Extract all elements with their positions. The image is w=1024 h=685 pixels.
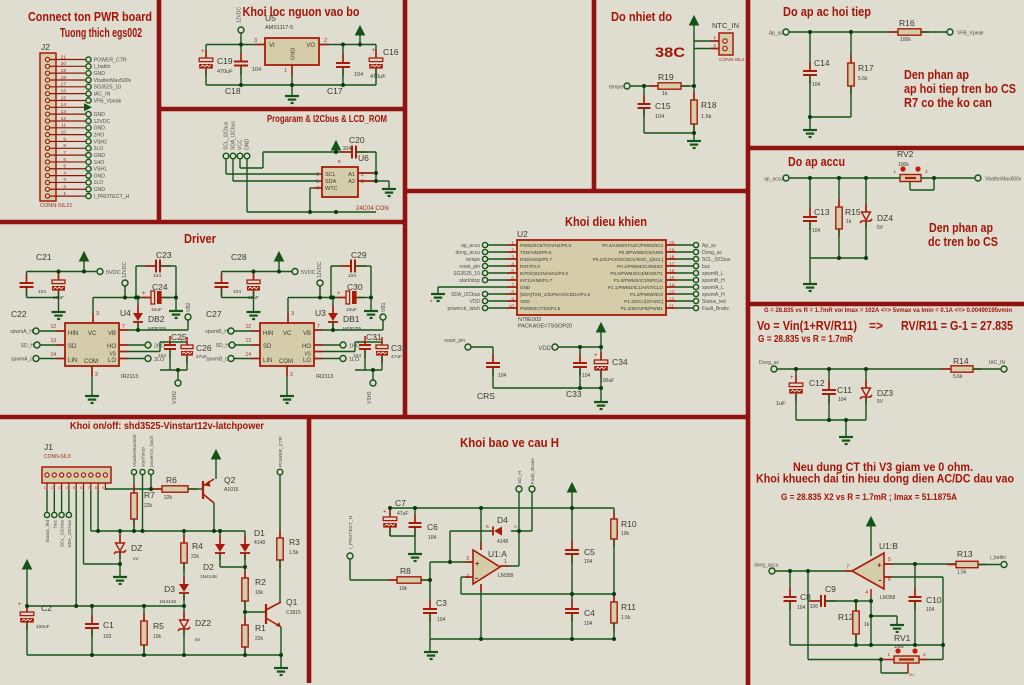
svg-text:U1:A: U1:A	[488, 549, 507, 559]
svg-text:C3: C3	[436, 598, 447, 608]
svg-text:VS: VS	[109, 352, 116, 358]
svg-text:14: 14	[50, 352, 56, 358]
svg-text:104: 104	[233, 289, 241, 295]
svg-text:PWM2/IC6/T0/AIN4/P0.5: PWM2/IC6/T0/AIN4/P0.5	[520, 243, 572, 248]
svg-text:C34: C34	[612, 357, 628, 367]
svg-text:VDD: VDD	[538, 346, 551, 352]
svg-text:12: 12	[245, 324, 251, 330]
svg-text:C33: C33	[566, 389, 582, 399]
svg-text:reset_pin: reset_pin	[459, 264, 480, 270]
svg-text:C18: C18	[225, 86, 241, 96]
svg-text:+: +	[790, 375, 794, 381]
svg-text:Q2: Q2	[224, 475, 236, 485]
svg-text:P1.1/PWM1/IC1/AIN7/CLO: P1.1/PWM1/IC1/AIN7/CLO	[608, 285, 664, 290]
svg-text:COM: COM	[279, 359, 293, 365]
svg-text:C9: C9	[825, 584, 836, 594]
svg-text:TXD/AIN3/P0.6: TXD/AIN3/P0.6	[520, 250, 552, 255]
svg-text:14: 14	[245, 352, 251, 358]
svg-text:38C: 38C	[655, 45, 685, 60]
svg-text:1N4148: 1N4148	[159, 599, 176, 605]
svg-text:3: 3	[361, 179, 364, 185]
svg-text:C13: C13	[814, 207, 830, 217]
svg-text:104: 104	[655, 114, 664, 120]
svg-text:VDD: VDD	[520, 299, 530, 304]
svg-text:C7: C7	[395, 498, 406, 508]
svg-text:C5: C5	[584, 547, 595, 557]
svg-text:104: 104	[812, 228, 821, 234]
svg-text:5: 5	[63, 164, 66, 170]
svg-text:Tuong thich egs002: Tuong thich egs002	[60, 26, 142, 40]
svg-text:12VDC: 12VDC	[122, 261, 128, 278]
svg-text:Den phan ap: Den phan ap	[904, 68, 969, 82]
svg-text:100k: 100k	[894, 644, 905, 649]
svg-text:1HO: 1HO	[94, 160, 105, 166]
svg-text:1k: 1k	[662, 91, 668, 97]
svg-text:DZ2: DZ2	[195, 618, 211, 628]
svg-text:1.5k: 1.5k	[621, 615, 631, 621]
svg-text:powerctr_latch: powerctr_latch	[447, 306, 480, 312]
svg-text:Ap_ac: Ap_ac	[769, 31, 784, 37]
svg-text:VB2: VB2	[186, 302, 192, 312]
svg-text:R18: R18	[701, 100, 717, 110]
svg-text:12: 12	[61, 116, 67, 122]
svg-text:5.6k: 5.6k	[953, 374, 963, 380]
svg-text:SD: SD	[68, 344, 77, 350]
svg-text:4148: 4148	[254, 540, 265, 546]
svg-text:R11: R11	[621, 602, 636, 612]
svg-text:spwmA_L: spwmA_L	[11, 357, 33, 363]
svg-text:SCL_I2Cbus: SCL_I2Cbus	[60, 519, 66, 547]
svg-text:I_battin: I_battin	[94, 64, 111, 70]
svg-text:13: 13	[50, 338, 56, 344]
svg-text:7: 7	[317, 324, 320, 330]
svg-text:G = 28.835 X2 vs R = 1.7mR ; I: G = 28.835 X2 vs R = 1.7mR ; Imax = 51.1…	[781, 492, 957, 503]
svg-text:I_PROTECT_H: I_PROTECT_H	[348, 515, 354, 549]
svg-text:spwmB_H: spwmB_H	[205, 329, 228, 335]
svg-text:VSH1: VSH1	[94, 167, 108, 173]
svg-text:106: 106	[810, 604, 819, 610]
svg-text:G = 28.835 vs R = 1.7mR voi Im: G = 28.835 vs R = 1.7mR voi Imax = 102A …	[764, 307, 1012, 314]
svg-text:47uF: 47uF	[397, 511, 408, 517]
svg-text:3: 3	[466, 556, 469, 562]
svg-text:P0.1/PWM4/IC4/MISO: P0.1/PWM4/IC4/MISO	[617, 264, 663, 269]
svg-text:SG3525_10: SG3525_10	[453, 271, 480, 277]
svg-text:+: +	[594, 353, 598, 359]
svg-text:xV: xV	[133, 556, 139, 562]
svg-text:4148: 4148	[497, 539, 508, 545]
svg-text:Do nhiet do: Do nhiet do	[611, 9, 672, 24]
svg-text:Khoi bao ve cau H: Khoi bao ve cau H	[460, 435, 559, 450]
svg-text:R7: R7	[144, 490, 155, 500]
svg-text:16: 16	[61, 88, 67, 94]
svg-text:104: 104	[343, 146, 352, 152]
svg-text:A: A	[514, 524, 517, 529]
svg-text:4: 4	[63, 170, 66, 176]
svg-text:SDA_I2Cbus: SDA_I2Cbus	[451, 292, 480, 298]
svg-text:7: 7	[63, 150, 66, 156]
svg-text:R16: R16	[899, 18, 915, 28]
svg-text:SD: SD	[263, 344, 272, 350]
svg-text:ap_accu: ap_accu	[764, 177, 783, 183]
svg-text:POWER_CTR: POWER_CTR	[278, 436, 284, 467]
svg-text:104: 104	[353, 353, 361, 359]
svg-text:C24: C24	[152, 282, 168, 292]
svg-text:5VDC: 5VDC	[106, 270, 121, 276]
svg-text:LIN: LIN	[68, 358, 77, 364]
svg-text:P0.2/ICPCK/OCDCK/RXD_1[SCL]: P0.2/ICPCK/OCDCK/RXD_1[SCL]	[593, 257, 663, 262]
svg-text:2: 2	[713, 43, 716, 49]
svg-text:R15: R15	[845, 207, 861, 217]
svg-text:104: 104	[348, 273, 356, 279]
svg-text:2HO: 2HO	[94, 132, 105, 138]
svg-text:100k: 100k	[900, 37, 911, 43]
svg-text:VC: VC	[88, 331, 97, 337]
svg-text:C31: C31	[366, 332, 382, 342]
svg-text:10k: 10k	[621, 531, 630, 537]
svg-text:i_battin: i_battin	[990, 555, 1006, 561]
svg-text:10k: 10k	[255, 590, 264, 596]
svg-text:R6: R6	[166, 475, 177, 485]
svg-text:ap_accu: ap_accu	[461, 243, 480, 249]
svg-text:18: 18	[61, 75, 67, 81]
svg-text:14: 14	[61, 102, 67, 108]
svg-text:C4: C4	[584, 608, 595, 618]
svg-text:GND: GND	[94, 126, 106, 132]
svg-text:U6: U6	[358, 153, 369, 163]
svg-text:Do ap accu: Do ap accu	[788, 154, 845, 169]
svg-text:N79E003: N79E003	[518, 317, 541, 323]
svg-text:IR2113: IR2113	[121, 374, 138, 380]
svg-text:100uF: 100uF	[36, 624, 50, 630]
svg-text:2: 2	[290, 372, 293, 378]
svg-text:7: 7	[122, 324, 125, 330]
svg-text:SCL_I2Cbus: SCL_I2Cbus	[702, 257, 731, 263]
svg-text:Status_led: Status_led	[45, 520, 51, 543]
svg-text:DB1: DB1	[343, 314, 360, 324]
svg-text:+: +	[180, 337, 183, 343]
svg-text:Progaram & I2Cbus & LCD_ROM: Progaram & I2Cbus & LCD_ROM	[267, 113, 387, 125]
svg-text:1N4148: 1N4148	[200, 574, 217, 580]
svg-text:WTC: WTC	[325, 186, 338, 192]
svg-text:reset_pin: reset_pin	[444, 338, 465, 344]
svg-text:R8: R8	[400, 566, 411, 576]
svg-text:104: 104	[437, 617, 446, 623]
svg-text:21: 21	[61, 54, 67, 60]
svg-text:Khoi khuech dai tin hieu dong: Khoi khuech dai tin hieu dong dien AC/DC…	[756, 472, 1014, 486]
svg-text:SG3525_10: SG3525_10	[94, 85, 122, 91]
svg-text:104: 104	[153, 273, 161, 279]
svg-text:VSH2: VSH2	[172, 391, 178, 404]
svg-text:AMS1117-5: AMS1117-5	[265, 25, 293, 31]
svg-text:P1.3/SCL/[STADC]: P1.3/SCL/[STADC]	[624, 299, 663, 304]
svg-text:GND: GND	[291, 48, 297, 60]
svg-text:VB: VB	[303, 331, 311, 337]
svg-text:RV/R11 = G-1 = 27.835: RV/R11 = G-1 = 27.835	[901, 319, 1013, 333]
svg-text:A1: A1	[348, 172, 355, 178]
svg-text:9: 9	[63, 136, 66, 142]
svg-text:Do ap ac hoi tiep: Do ap ac hoi tiep	[783, 5, 871, 19]
svg-text:1.5k: 1.5k	[289, 550, 299, 556]
svg-text:8: 8	[63, 143, 66, 149]
svg-text:VB1: VB1	[381, 302, 387, 312]
svg-text:dong_accu: dong_accu	[754, 563, 779, 569]
svg-text:J2: J2	[41, 42, 50, 52]
svg-text:1uF: 1uF	[776, 401, 786, 407]
svg-text:Status_led: Status_led	[702, 299, 726, 305]
svg-text:IAC_IN: IAC_IN	[989, 360, 1006, 366]
svg-text:spwmB_L: spwmB_L	[206, 357, 228, 363]
svg-text:12VDC: 12VDC	[94, 119, 111, 125]
svg-text:HER205: HER205	[343, 326, 361, 332]
svg-text:R14: R14	[953, 356, 969, 366]
svg-text:5.6k: 5.6k	[858, 76, 868, 82]
svg-text:-: -	[879, 575, 882, 585]
svg-text:5V: 5V	[877, 225, 884, 231]
svg-text:POWER_CTR: POWER_CTR	[94, 57, 127, 63]
svg-text:Fault_Brake: Fault_Brake	[530, 458, 536, 484]
svg-text:R12: R12	[838, 612, 854, 622]
svg-text:R7 co the ko can: R7 co the ko can	[904, 96, 992, 110]
svg-text:INT1/AIN0/P1.7: INT1/AIN0/P1.7	[520, 278, 553, 283]
svg-text:Q1: Q1	[286, 597, 298, 607]
svg-text:C29: C29	[351, 250, 367, 260]
svg-text:INT0/OSCIN/AIN1/P3.0: INT0/OSCIN/AIN1/P3.0	[520, 271, 568, 276]
svg-text:20: 20	[61, 61, 67, 67]
svg-text:GND: GND	[94, 112, 106, 118]
svg-text:LO: LO	[108, 358, 116, 364]
svg-text:+: +	[372, 48, 376, 54]
svg-text:Vo = Vin(1+RV/R11): Vo = Vin(1+RV/R11)	[757, 319, 857, 333]
svg-text:C22: C22	[11, 309, 27, 319]
svg-text:LM358: LM358	[498, 573, 514, 579]
svg-text:VCC: VCC	[238, 139, 244, 150]
svg-text:GND: GND	[520, 285, 531, 290]
svg-text:470uF: 470uF	[217, 69, 233, 75]
svg-text:C19: C19	[217, 56, 233, 66]
svg-text:7: 7	[316, 186, 319, 192]
svg-text:D4: D4	[497, 515, 508, 525]
svg-text:+: +	[375, 337, 378, 343]
svg-text:C11: C11	[837, 385, 852, 395]
svg-text:D2: D2	[203, 562, 214, 572]
svg-text:C30: C30	[347, 282, 363, 292]
svg-text:HER305: HER305	[148, 326, 166, 332]
svg-text:22k: 22k	[164, 495, 173, 501]
svg-text:104: 104	[252, 67, 261, 73]
svg-text:13: 13	[61, 109, 67, 115]
svg-text:LM358: LM358	[880, 595, 896, 601]
svg-text:+: +	[17, 602, 21, 608]
svg-text:spwmB_H: spwmB_H	[702, 278, 725, 284]
svg-text:DZ: DZ	[131, 543, 142, 553]
svg-text:15: 15	[61, 95, 67, 101]
svg-text:U4: U4	[120, 308, 131, 318]
svg-text:12VDC: 12VDC	[237, 6, 243, 23]
svg-text:VDD: VDD	[469, 299, 480, 305]
svg-text:I_PROTECT_H: I_PROTECT_H	[94, 194, 130, 200]
svg-text:Connect ton PWR board: Connect ton PWR board	[28, 10, 152, 24]
svg-text:1: 1	[504, 559, 507, 565]
svg-text:C32: C32	[391, 343, 407, 353]
svg-text:powerctr_latch: powerctr_latch	[149, 435, 155, 467]
svg-text:104: 104	[926, 607, 935, 613]
svg-text:6: 6	[63, 157, 66, 163]
svg-text:3: 3	[96, 311, 99, 317]
svg-text:+: +	[337, 291, 341, 297]
svg-text:R1: R1	[255, 623, 266, 633]
svg-text:1k: 1k	[846, 219, 852, 225]
svg-text:R10: R10	[621, 519, 637, 529]
svg-text:CONN-SIL9: CONN-SIL9	[44, 454, 71, 460]
svg-text:R19: R19	[658, 72, 674, 82]
svg-text:P0.0/PWM3/IC3/MOSI/T1: P0.0/PWM3/IC3/MOSI/T1	[610, 271, 663, 276]
svg-text:17: 17	[61, 82, 67, 88]
svg-text:R5: R5	[153, 621, 164, 631]
svg-text:1: 1	[63, 191, 66, 197]
svg-text:+: +	[201, 49, 205, 55]
svg-text:U3: U3	[315, 308, 326, 318]
svg-text:104: 104	[498, 373, 507, 379]
svg-text:spwmA_L: spwmA_L	[702, 285, 724, 291]
svg-text:R3: R3	[289, 537, 300, 547]
svg-text:10: 10	[61, 129, 67, 135]
svg-text:2: 2	[324, 38, 327, 44]
svg-text:U2: U2	[517, 229, 528, 239]
svg-text:CONN-SIL21: CONN-SIL21	[40, 203, 72, 209]
svg-text:RXD/AIN2/P0.7: RXD/AIN2/P0.7	[520, 257, 552, 262]
svg-text:RST/P2.0: RST/P2.0	[520, 264, 540, 269]
svg-text:C2: C2	[41, 603, 52, 613]
svg-text:5VDC: 5VDC	[301, 270, 316, 276]
svg-text:2LO: 2LO	[94, 146, 104, 152]
svg-text:C6: C6	[427, 522, 438, 532]
svg-text:5V: 5V	[877, 399, 884, 405]
svg-text:470uF: 470uF	[370, 74, 386, 80]
svg-text:5v: 5v	[195, 637, 201, 643]
svg-text:Ap_ac: Ap_ac	[702, 243, 717, 249]
svg-text:SD_H: SD_H	[216, 343, 230, 349]
svg-text:19: 19	[61, 68, 67, 74]
svg-text:start/stop: start/stop	[141, 447, 147, 467]
svg-text:SDA_I2Cbus: SDA_I2Cbus	[67, 519, 73, 547]
svg-text:R17: R17	[858, 63, 874, 73]
svg-text:U5: U5	[265, 13, 276, 23]
svg-text:D1: D1	[254, 528, 265, 538]
svg-text:A2: A2	[348, 179, 355, 185]
svg-text:GND: GND	[94, 187, 106, 193]
svg-text:22k: 22k	[191, 554, 200, 560]
svg-text:GND: GND	[94, 173, 106, 179]
svg-text:11: 11	[61, 123, 66, 129]
svg-text:LO: LO	[303, 358, 311, 364]
svg-text:SDA: SDA	[325, 179, 337, 185]
svg-text:U1:B: U1:B	[879, 541, 898, 551]
svg-text:10k: 10k	[399, 586, 408, 592]
svg-text:-: -	[475, 573, 478, 583]
svg-text:CRS: CRS	[477, 391, 495, 401]
svg-text:104: 104	[838, 397, 847, 403]
svg-text:104: 104	[428, 535, 437, 541]
svg-text:104: 104	[812, 82, 821, 88]
svg-text:A1015: A1015	[224, 487, 239, 493]
svg-text:R13: R13	[957, 549, 973, 559]
svg-text:SDA_I2Cbus: SDA_I2Cbus	[231, 121, 237, 150]
svg-text:1.5k: 1.5k	[957, 570, 967, 576]
svg-text:3: 3	[63, 177, 66, 183]
svg-text:2: 2	[63, 184, 66, 190]
svg-text:VSH1: VSH1	[367, 391, 373, 404]
svg-text:HIN: HIN	[263, 331, 273, 337]
svg-text:HO: HO	[302, 344, 311, 350]
svg-text:C17: C17	[327, 86, 343, 96]
svg-text:dong_accu: dong_accu	[456, 250, 481, 256]
svg-text:6: 6	[316, 172, 319, 178]
svg-text:12VDC: 12VDC	[317, 261, 323, 278]
svg-text:+: +	[383, 509, 386, 515]
svg-text:G = 28.835 vs R = 1.7mR: G = 28.835 vs R = 1.7mR	[758, 334, 854, 345]
svg-text:10uF: 10uF	[346, 307, 357, 313]
svg-text:22k: 22k	[255, 636, 264, 642]
svg-text:[SDA]TXD_1/ICPDA/OCDDA/P1.6: [SDA]TXD_1/ICPDA/OCDDA/P1.6	[520, 292, 591, 297]
svg-text:C27: C27	[206, 309, 222, 319]
svg-text:DB2: DB2	[148, 314, 165, 324]
svg-text:C23: C23	[156, 250, 172, 260]
svg-text:C10: C10	[926, 595, 942, 605]
svg-text:P0.3/PWM5/IC5/AIN6: P0.3/PWM5/IC5/AIN6	[619, 250, 664, 255]
svg-text:10k: 10k	[153, 634, 162, 640]
svg-text:LIN: LIN	[263, 358, 272, 364]
svg-text:C25: C25	[171, 332, 187, 342]
svg-text:C14: C14	[814, 58, 830, 68]
svg-text:=>: =>	[869, 319, 883, 333]
svg-text:CONN-SIL2: CONN-SIL2	[719, 57, 745, 63]
svg-text:buz: buz	[702, 264, 711, 270]
svg-text:GND: GND	[94, 71, 106, 77]
svg-text:4: 4	[865, 590, 868, 596]
svg-text:P1.0/PWM2/IC2/SPCLK: P1.0/PWM2/IC2/SPCLK	[614, 278, 664, 283]
svg-text:3: 3	[291, 311, 294, 317]
svg-text:104: 104	[797, 605, 806, 611]
svg-text:IR2113: IR2113	[316, 374, 333, 380]
svg-text:P0.4/AIN5/STADC/PWM3/IC3: P0.4/AIN5/STADC/PWM3/IC3	[602, 243, 663, 248]
svg-text:Dong_ac: Dong_ac	[702, 250, 723, 256]
svg-text:DZ3: DZ3	[877, 388, 893, 398]
svg-text:cu: cu	[909, 672, 914, 677]
svg-text:VO: VO	[306, 43, 315, 49]
svg-text:104: 104	[354, 72, 363, 78]
svg-text:R4: R4	[192, 541, 203, 551]
svg-text:RV1: RV1	[894, 633, 911, 643]
svg-text:VFB_Vpeak: VFB_Vpeak	[957, 31, 984, 37]
svg-text:NTC_IN: NTC_IN	[712, 21, 739, 30]
svg-text:SCL: SCL	[325, 172, 336, 178]
svg-text:1: 1	[713, 35, 716, 41]
svg-text:VS: VS	[304, 352, 311, 358]
svg-text:HIN: HIN	[68, 331, 78, 337]
svg-text:D3: D3	[164, 584, 175, 594]
svg-text:+: +	[475, 559, 480, 568]
svg-text:IAC_IN: IAC_IN	[94, 91, 111, 97]
svg-text:dc tren bo CS: dc tren bo CS	[928, 235, 998, 249]
svg-text:spwmA_H: spwmA_H	[10, 329, 33, 335]
svg-text:C20: C20	[349, 135, 365, 145]
svg-text:PACKAGE=TSSOP20: PACKAGE=TSSOP20	[518, 324, 572, 330]
svg-text:C12: C12	[809, 378, 825, 388]
svg-text:+: +	[877, 561, 882, 570]
svg-text:R2: R2	[255, 577, 266, 587]
svg-text:104: 104	[584, 559, 593, 565]
svg-text:1.5k: 1.5k	[701, 114, 712, 120]
